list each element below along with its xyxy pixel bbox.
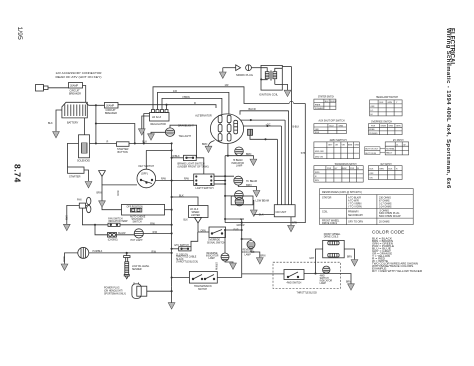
svg-text:INDICATOR TEMP: INDICATOR TEMP: [108, 220, 128, 223]
svg-text:STARTER SWITCH: STARTER SWITCH: [318, 96, 334, 99]
svg-text:FREE: FREE: [315, 105, 321, 107]
svg-text:ALTERNATOR: ALTERNATOR: [195, 114, 212, 117]
svg-text:GRN: GRN: [388, 102, 393, 104]
svg-text:W: W: [404, 144, 406, 146]
svg-text:PUR: PUR: [327, 168, 332, 170]
svg-text:RUN: RUN: [315, 132, 320, 134]
svg-text:4WD SWITCH: 4WD SWITCH: [287, 282, 302, 284]
svg-text:TAILLIGHT: TAILLIGHT: [179, 135, 192, 138]
svg-text:Y/BRN: Y/BRN: [182, 96, 190, 99]
svg-text:5YB: 5YB: [301, 153, 306, 155]
svg-text:OVERRIDE SWITCH: OVERRIDE SWITCH: [371, 120, 392, 123]
svg-text:BATTERY: BATTERY: [67, 122, 79, 125]
svg-text:COLOR CODE: COLOR CODE: [372, 230, 404, 235]
svg-text:KEY SWITCH: KEY SWITCH: [139, 165, 155, 168]
svg-text:SENDER: SENDER: [132, 269, 142, 271]
svg-text:W: W: [357, 168, 359, 170]
svg-text:GRN: GRN: [355, 145, 360, 147]
svg-text:HI BEAM: HI BEAM: [233, 159, 243, 162]
svg-text:TRANSMISSION SWITCH: TRANSMISSION SWITCH: [335, 163, 357, 166]
svg-text:SWITCH: SWITCH: [198, 289, 207, 291]
svg-text:PUSHED: PUSHED: [315, 108, 324, 110]
svg-text:BLK: BLK: [48, 122, 53, 125]
svg-text:20 OHMS: 20 OHMS: [379, 221, 390, 224]
svg-text:R: R: [194, 102, 196, 105]
svg-text:OVERRIDE: OVERRIDE: [208, 240, 220, 242]
svg-text:POWER PLUG: POWER PLUG: [104, 287, 120, 289]
svg-text:ETC SWITCH: ETC SWITCH: [175, 245, 190, 247]
svg-text:4WD ON: 4WD ON: [315, 156, 324, 158]
svg-text:BLK: BLK: [179, 194, 184, 197]
svg-text:R/W: R/W: [161, 177, 167, 180]
svg-text:REV: REV: [315, 180, 320, 182]
svg-text:PUR: PUR: [234, 229, 239, 231]
svg-text:ORN: ORN: [201, 231, 206, 233]
svg-text:1/R: 1/R: [225, 84, 229, 87]
svg-text:BLU: BLU: [330, 126, 334, 128]
svg-text:FAULT: FAULT: [386, 152, 393, 155]
svg-text:LAMP: LAMP: [320, 282, 327, 285]
svg-text:STARTER: STARTER: [69, 176, 81, 179]
svg-text:HI. BEAM: HI. BEAM: [246, 180, 257, 183]
svg-text:BRN: BRN: [292, 223, 297, 225]
svg-text:BUTTON OUT: BUTTON OUT: [365, 149, 379, 151]
svg-text:L/W: L/W: [240, 219, 245, 221]
svg-text:BLK: BLK: [259, 213, 264, 216]
svg-text:NORMAL: NORMAL: [386, 147, 395, 150]
svg-text:30AMP: 30AMP: [106, 105, 115, 108]
svg-text:RESISTANCES (±20% @ 68°F/20°C): RESISTANCES (±20% @ 68°F/20°C): [322, 191, 362, 194]
svg-text:LR 32-Z: LR 32-Z: [152, 116, 162, 119]
svg-text:SECONDARY: SECONDARY: [348, 214, 364, 217]
svg-text:PUR: PUR: [350, 168, 355, 170]
svg-text:BRN: BRN: [380, 168, 385, 170]
svg-text:LAMP: LAMP: [209, 257, 216, 260]
svg-text:HOT LIGHT: HOT LIGHT: [131, 240, 144, 242]
svg-text:BLK: BLK: [380, 102, 384, 104]
svg-text:BLK/R: BLK/R: [331, 101, 337, 103]
svg-text:BRAKELIGHT: BRAKELIGHT: [178, 125, 194, 128]
svg-text:BUTTON: BUTTON: [118, 151, 128, 154]
svg-text:BLK: BLK: [370, 168, 374, 170]
svg-text:BLK/R: BLK/R: [249, 108, 256, 111]
svg-text:R/Y = RED WITH YELLOW TRACER: R/Y = RED WITH YELLOW TRACER: [372, 270, 422, 273]
svg-text:FWD: FWD: [315, 172, 320, 174]
svg-text:THROTTLE BLOCK: THROTTLE BLOCK: [297, 293, 318, 295]
svg-text:PUSHED: PUSHED: [369, 133, 378, 135]
svg-text:INDICATOR: INDICATOR: [232, 162, 245, 165]
svg-text:BRN: BRN: [65, 215, 67, 220]
svg-text:SIGNAL SWITCH: SIGNAL SWITCH: [207, 241, 225, 244]
svg-text:0.24 OHMS: 0.24 OHMS: [379, 206, 392, 209]
svg-text:GRN/W: GRN/W: [215, 262, 217, 271]
svg-text:+DC: +DC: [266, 124, 271, 127]
svg-text:TRANSMISSION: TRANSMISSION: [194, 285, 212, 288]
svg-text:GRN: GRN: [396, 126, 401, 128]
svg-text:BLK: BLK: [325, 101, 329, 103]
svg-text:AUX SHUT OFF SWITCH: AUX SHUT OFF SWITCH: [319, 120, 345, 123]
svg-text:STATOR: STATOR: [322, 197, 332, 200]
svg-text:GRY: GRY: [328, 145, 333, 147]
svg-text:DRIVE COILS: DRIVE COILS: [322, 222, 338, 225]
svg-text:LR 44-Z: LR 44-Z: [190, 209, 199, 211]
svg-text:BRN: BRN: [202, 143, 207, 146]
svg-text:PUR: PUR: [371, 126, 376, 128]
svg-text:GRN/W: GRN/W: [237, 225, 246, 227]
svg-text:HEADLAMP SWITCH: HEADLAMP SWITCH: [376, 96, 398, 99]
svg-text:FREE: FREE: [369, 129, 375, 131]
svg-text:R/W: R/W: [184, 178, 190, 181]
svg-text:GRN: GRN: [339, 126, 344, 128]
svg-text:BRN: BRN: [261, 255, 266, 257]
svg-text:B-BLK: B-BLK: [293, 127, 300, 129]
svg-text:1/95: 1/95: [16, 27, 23, 40]
svg-text:BRN: BRN: [62, 257, 64, 262]
svg-text:(UNDER FRONT OF TANK): (UNDER FRONT OF TANK): [178, 166, 209, 169]
svg-text:BRN: BRN: [97, 193, 102, 195]
svg-text:BLK: BLK: [389, 168, 393, 170]
svg-text:SPORTSMAN ONLY): SPORTSMAN ONLY): [104, 292, 126, 295]
svg-text:SWITCH: SWITCH: [133, 221, 142, 223]
svg-text:LOW BEAM: LOW BEAM: [256, 200, 269, 203]
svg-text:COIL: COIL: [322, 211, 328, 214]
svg-text:SPEED: SPEED: [192, 212, 200, 214]
svg-text:BLK: BLK: [184, 220, 189, 222]
svg-text:ETC SWITCH: ETC SWITCH: [393, 139, 404, 142]
svg-text:N: N: [315, 176, 317, 178]
svg-text:8.74: 8.74: [13, 164, 23, 183]
svg-text:Y TO Y/GRN: Y TO Y/GRN: [348, 206, 362, 209]
svg-text:R/BLK: R/BLK: [173, 155, 181, 158]
svg-text:BRN: BRN: [346, 281, 351, 283]
svg-text:ON: ON: [370, 177, 374, 179]
svg-text:SPARK PLUG: SPARK PLUG: [236, 74, 253, 77]
svg-text:GN/W: GN/W: [341, 168, 347, 170]
svg-text:1/R: 1/R: [173, 90, 177, 93]
svg-text:(THROTTLE BLOCK): (THROTTLE BLOCK): [176, 262, 198, 264]
svg-text:GRN: GRN: [389, 126, 394, 128]
svg-text:BREAKER: BREAKER: [69, 92, 81, 95]
svg-text:30AMP: 30AMP: [70, 85, 79, 88]
svg-text:KEY SWITCH: KEY SWITCH: [381, 163, 392, 166]
svg-text:LOW OIL LEVEL: LOW OIL LEVEL: [132, 266, 150, 268]
svg-text:SOLENOID: SOLENOID: [77, 160, 90, 163]
svg-text:GN/W: GN/W: [381, 126, 387, 128]
svg-text:OFF: OFF: [370, 173, 375, 175]
svg-text:LIMITER: LIMITER: [191, 215, 200, 217]
svg-text:BRN: BRN: [116, 191, 118, 196]
svg-text:IGNITION COIL: IGNITION COIL: [259, 93, 279, 96]
svg-text:LIGHT SWITCH: LIGHT SWITCH: [196, 187, 214, 190]
svg-text:GRY TO ORN: GRY TO ORN: [348, 221, 363, 224]
svg-text:GRY: GRY: [309, 258, 314, 260]
svg-text:LO: LO: [371, 110, 374, 112]
svg-text:CDI UNIT: CDI UNIT: [276, 211, 287, 214]
svg-text:BRN: BRN: [246, 184, 251, 187]
svg-text:LAMP: LAMP: [245, 254, 252, 257]
svg-text:5000 OHMS W/CAP: 5000 OHMS W/CAP: [379, 215, 401, 218]
svg-text:BRN: BRN: [348, 145, 353, 147]
svg-text:BUTTON IN: BUTTON IN: [365, 153, 376, 155]
svg-text:OFF POSITION: OFF POSITION: [127, 207, 144, 209]
svg-text:(CHOKE): (CHOKE): [108, 240, 118, 242]
svg-text:OR: OR: [335, 145, 339, 147]
svg-text:Y/R: Y/R: [342, 145, 346, 147]
svg-text:(OFF): (OFF): [141, 172, 148, 175]
svg-text:(ON HEADLIGHT/: (ON HEADLIGHT/: [104, 289, 123, 292]
svg-text:BREAKER: BREAKER: [105, 112, 117, 115]
svg-text:R: R: [107, 141, 109, 144]
svg-text:FAN: FAN: [77, 199, 82, 202]
svg-text:4WD OFF: 4WD OFF: [315, 151, 325, 153]
svg-text:BLK: BLK: [142, 141, 147, 144]
svg-text:LAMP: LAMP: [236, 165, 243, 168]
svg-text:4WD SWITCH: 4WD SWITCH: [330, 139, 347, 142]
svg-text:DRIVE COILS: DRIVE COILS: [324, 236, 339, 238]
svg-text:BLU/W: BLU/W: [118, 233, 126, 235]
svg-text:REGULATOR: REGULATOR: [151, 123, 167, 126]
svg-text:Wiring Schematic - 1994 400L 4: Wiring Schematic - 1994 400L 4x4, Sports…: [445, 28, 451, 189]
svg-text:BRN: BRN: [246, 153, 251, 156]
svg-text:BRN: BRN: [347, 257, 352, 259]
svg-text:REAR OF ATV (HOT ON KEY): REAR OF ATV (HOT ON KEY): [56, 75, 102, 79]
svg-text:PUR/BLK: PUR/BLK: [93, 251, 103, 253]
svg-text:R: R: [396, 168, 398, 170]
